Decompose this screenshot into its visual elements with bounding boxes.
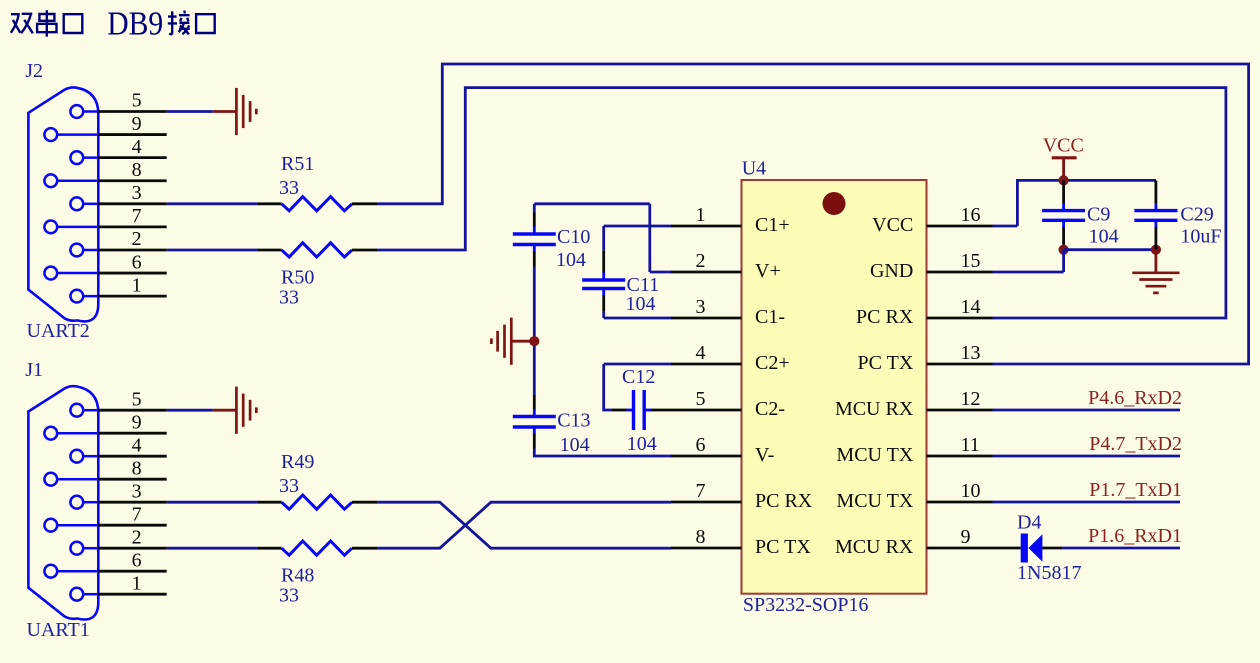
svg-text:6: 6 [132, 251, 142, 273]
svg-text:MCU RX: MCU RX [835, 536, 914, 558]
svg-text:C1-: C1- [755, 306, 785, 328]
svg-text:PC RX: PC RX [755, 490, 813, 512]
svg-text:3: 3 [132, 480, 142, 502]
svg-text:P1.7_TxD1: P1.7_TxD1 [1089, 479, 1182, 501]
svg-text:2: 2 [696, 250, 706, 272]
svg-text:PC TX: PC TX [755, 536, 811, 558]
svg-text:C13: C13 [557, 410, 590, 432]
svg-text:6: 6 [696, 434, 706, 456]
svg-text:10: 10 [961, 480, 981, 502]
svg-text:C1+: C1+ [755, 214, 790, 236]
svg-text:R49: R49 [281, 451, 314, 473]
svg-text:14: 14 [961, 296, 981, 318]
svg-text:R51: R51 [281, 153, 314, 175]
svg-text:P4.6_RxD2: P4.6_RxD2 [1088, 387, 1182, 409]
svg-text:12: 12 [961, 388, 981, 410]
svg-text:3: 3 [696, 296, 706, 318]
svg-text:15: 15 [961, 250, 981, 272]
svg-text:GND: GND [870, 260, 913, 282]
svg-text:16: 16 [961, 204, 981, 226]
svg-text:C29: C29 [1180, 204, 1213, 226]
svg-text:R50: R50 [281, 266, 314, 288]
svg-text:PC TX: PC TX [858, 352, 914, 374]
svg-text:3: 3 [132, 182, 142, 204]
svg-text:VCC: VCC [872, 214, 913, 236]
svg-text:P1.6_RxD1: P1.6_RxD1 [1088, 525, 1182, 547]
svg-text:1: 1 [132, 572, 142, 594]
svg-text:C10: C10 [557, 226, 590, 248]
svg-text:UART1: UART1 [27, 619, 90, 641]
svg-text:8: 8 [132, 159, 142, 181]
svg-text:9: 9 [961, 526, 971, 548]
svg-text:104: 104 [556, 249, 586, 271]
svg-text:SP3232-SOP16: SP3232-SOP16 [743, 594, 869, 616]
svg-text:1: 1 [132, 274, 142, 296]
svg-text:2: 2 [132, 526, 142, 548]
svg-text:11: 11 [961, 434, 980, 456]
svg-text:C2+: C2+ [755, 352, 790, 374]
svg-text:4: 4 [696, 342, 706, 364]
svg-text:UART2: UART2 [27, 320, 90, 342]
svg-text:8: 8 [132, 457, 142, 479]
svg-text:VCC: VCC [1043, 134, 1084, 156]
svg-text:D4: D4 [1017, 512, 1041, 534]
svg-text:10uF: 10uF [1180, 225, 1221, 247]
svg-text:7: 7 [132, 205, 142, 227]
svg-text:P4.7_TxD2: P4.7_TxD2 [1089, 433, 1182, 455]
svg-text:9: 9 [132, 411, 142, 433]
svg-text:5: 5 [696, 388, 706, 410]
svg-text:9: 9 [132, 113, 142, 135]
svg-text:4: 4 [132, 136, 142, 158]
svg-text:1: 1 [696, 204, 706, 226]
svg-text:C9: C9 [1087, 204, 1110, 226]
svg-text:J2: J2 [25, 60, 43, 82]
svg-text:5: 5 [132, 388, 142, 410]
svg-text:33: 33 [279, 286, 299, 308]
svg-text:33: 33 [279, 475, 299, 497]
svg-text:33: 33 [279, 177, 299, 199]
svg-text:MCU TX: MCU TX [836, 444, 913, 466]
svg-text:U4: U4 [742, 158, 766, 180]
svg-text:6: 6 [132, 549, 142, 571]
svg-text:104: 104 [626, 293, 656, 315]
svg-text:8: 8 [696, 526, 706, 548]
svg-text:104: 104 [1089, 225, 1119, 247]
svg-text:C12: C12 [622, 366, 655, 388]
svg-text:7: 7 [132, 503, 142, 525]
svg-text:C2-: C2- [755, 398, 785, 420]
svg-text:7: 7 [696, 480, 706, 502]
svg-text:13: 13 [961, 342, 981, 364]
svg-text:33: 33 [279, 585, 299, 607]
svg-text:1N5817: 1N5817 [1017, 562, 1081, 584]
svg-text:104: 104 [627, 433, 657, 455]
svg-text:J1: J1 [25, 359, 43, 381]
svg-text:R48: R48 [281, 565, 314, 587]
svg-text:MCU TX: MCU TX [836, 490, 913, 512]
svg-text:DB9: DB9 [107, 5, 163, 42]
svg-text:PC RX: PC RX [856, 306, 914, 328]
svg-text:V+: V+ [755, 260, 781, 282]
svg-text:MCU RX: MCU RX [835, 398, 914, 420]
svg-text:V-: V- [755, 444, 774, 466]
svg-text:5: 5 [132, 90, 142, 112]
svg-text:2: 2 [132, 228, 142, 250]
svg-text:104: 104 [560, 434, 590, 456]
svg-text:4: 4 [132, 434, 142, 456]
